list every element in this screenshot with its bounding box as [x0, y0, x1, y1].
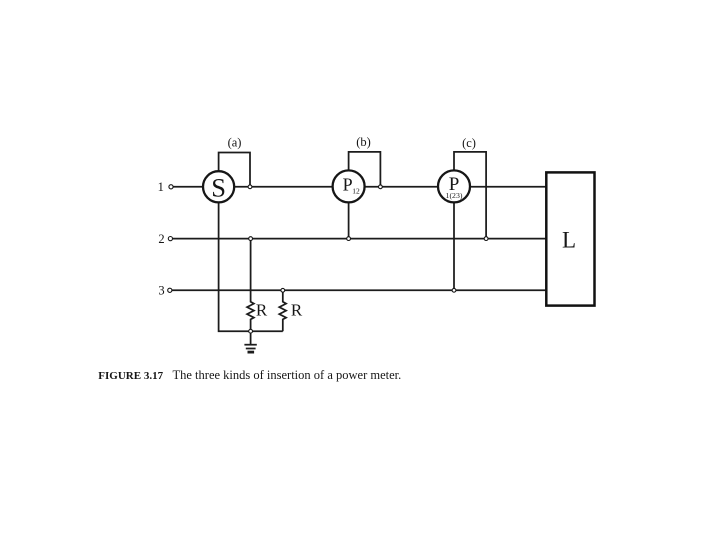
wire line 3	[172, 289, 546, 291]
node ground junction	[249, 329, 253, 333]
wire loop (b)	[349, 152, 381, 187]
svg-text:P: P	[343, 175, 353, 195]
wire S bottom drop and bottom horizontal	[219, 187, 283, 331]
svg-text:2: 2	[158, 232, 164, 246]
resistor R2	[279, 290, 286, 331]
svg-text:3: 3	[158, 284, 164, 298]
wire P12 bottom drop	[348, 186, 350, 238]
node P12 / line2	[347, 237, 351, 241]
svg-text:1(23): 1(23)	[446, 191, 463, 200]
resistor R1	[247, 239, 254, 332]
svg-text:R: R	[291, 301, 303, 320]
wire loop (c)	[454, 152, 486, 239]
svg-text:(c): (c)	[462, 136, 476, 150]
terminal 2	[168, 237, 172, 241]
node loop a / line1	[248, 185, 252, 189]
terminal 3	[168, 288, 172, 292]
wire P1(23) bottom drop	[453, 186, 455, 290]
svg-text:R: R	[256, 301, 268, 320]
svg-text:12: 12	[352, 187, 360, 196]
svg-text:(a): (a)	[228, 135, 242, 149]
wire line 1	[173, 186, 546, 188]
svg-text:1: 1	[158, 180, 164, 194]
meter S (a)	[203, 171, 234, 202]
meter P12 (b)	[333, 170, 365, 202]
svg-text:The three kinds of insertion o: The three kinds of insertion of a power …	[173, 368, 402, 382]
terminal 1	[169, 185, 173, 189]
svg-text:FIGURE 3.17: FIGURE 3.17	[98, 370, 163, 382]
svg-text:S: S	[211, 172, 226, 202]
node loop c / line2	[484, 237, 488, 241]
svg-text:L: L	[562, 227, 576, 252]
node loop b / line1	[379, 185, 383, 189]
wire loop (a)	[219, 153, 250, 187]
node R1 / line2	[249, 237, 253, 241]
load L box	[546, 172, 594, 305]
wire line 2	[173, 238, 547, 240]
meter P1(23) (c)	[438, 170, 470, 202]
node P1(23) / line3	[452, 288, 456, 292]
svg-text:(b): (b)	[356, 135, 371, 149]
ground	[250, 331, 252, 344]
node R2 / line3	[281, 288, 285, 292]
